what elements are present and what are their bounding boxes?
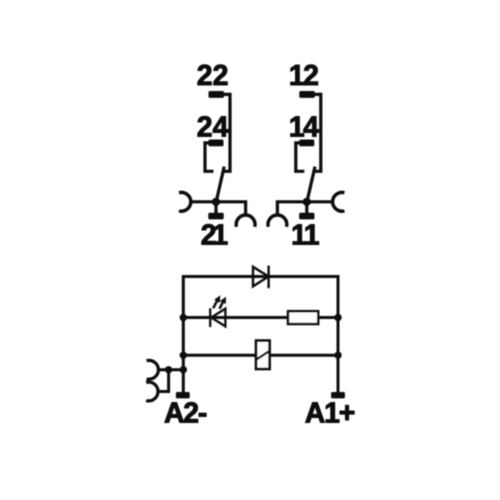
terminal 22 pad (209, 91, 225, 98)
LED branch wire (183, 316, 338, 319)
socket hook down (group 2) (268, 215, 287, 227)
socket hook down (group 1) (236, 215, 255, 227)
terminal 14 pad (299, 140, 314, 147)
svg-text:24: 24 (197, 111, 229, 143)
relay coil K (256, 341, 270, 369)
svg-text:A1+: A1+ (305, 397, 355, 429)
terminal A1 pad (331, 392, 345, 398)
stub wire to socket hooks at A2 (158, 368, 183, 371)
svg-text:14: 14 (289, 111, 319, 143)
svg-text:21: 21 (201, 220, 228, 252)
socket hook right (group 2) (333, 192, 345, 211)
junction node right/coil (334, 352, 341, 359)
socket hook upper (A2 side) (147, 360, 159, 379)
common wire (group 1) (191, 202, 246, 215)
junction node stub/hook (165, 366, 172, 373)
junction node (group 2 common) (303, 198, 311, 206)
junction node left/coil (180, 352, 187, 359)
svg-text:22: 22 (197, 60, 229, 92)
svg-text:A2-: A2- (164, 397, 207, 429)
terminal A2 pad (176, 392, 190, 398)
wire bracket from 14 pad to NO contact (296, 143, 305, 171)
freewheel diode V1 (253, 266, 269, 289)
switch arm (group 1) (216, 167, 224, 203)
wire from 12 pad down to fixed contact (314, 94, 321, 171)
coil branch wire (183, 354, 338, 357)
terminal 12 pad (299, 91, 315, 98)
junction node (group 1 common) (212, 198, 220, 206)
terminal 24 pad (209, 140, 224, 147)
series resistor (288, 311, 318, 324)
junction node right/LED (334, 314, 341, 321)
terminal 21 pad (208, 213, 223, 220)
socket hook lower (A2 side) (146, 382, 158, 401)
junction node left/stub (180, 366, 187, 373)
socket hook left (group 1) (179, 192, 191, 211)
stub to terminal 11 pad (305, 202, 308, 213)
coil circuit outer wire loop (183, 277, 338, 393)
wire from lower socket hook (158, 370, 169, 392)
stub to terminal 21 pad (214, 202, 217, 213)
common wire (group 2) (277, 202, 332, 215)
wire from 22 pad down to fixed contact (223, 94, 230, 171)
wire bracket from 24 pad to NO contact (205, 143, 214, 171)
junction node left/LED (180, 314, 187, 321)
LED light arrow 1 (213, 301, 217, 309)
svg-text:11: 11 (291, 220, 319, 252)
switch arm (group 2) (307, 167, 315, 203)
svg-text:12: 12 (289, 60, 318, 92)
LED light arrow 2 (220, 302, 224, 309)
terminal 11 pad (299, 213, 314, 220)
LED indicator (210, 296, 225, 327)
